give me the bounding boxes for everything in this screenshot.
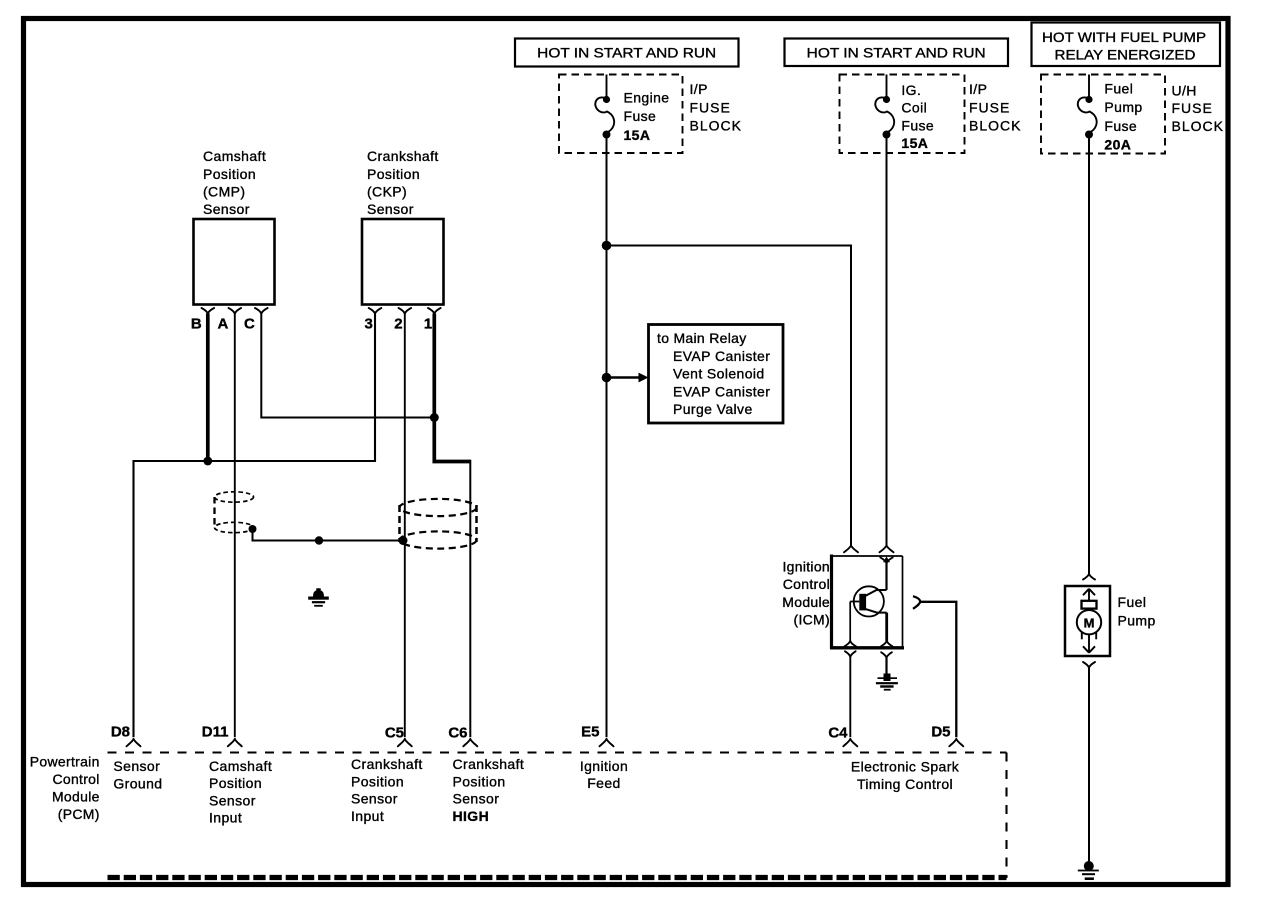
svg-text:HOT IN START AND RUN: HOT IN START AND RUN — [537, 45, 716, 61]
svg-text:D8: D8 — [111, 724, 130, 741]
svg-text:IG.: IG. — [901, 82, 921, 98]
svg-text:Module: Module — [52, 789, 100, 805]
svg-text:Ground: Ground — [113, 775, 162, 791]
svg-text:Electronic Spark: Electronic Spark — [851, 759, 960, 775]
svg-text:HOT IN START AND RUN: HOT IN START AND RUN — [807, 45, 986, 61]
svg-text:HOT WITH FUEL PUMP: HOT WITH FUEL PUMP — [1042, 29, 1206, 45]
svg-text:(CMP): (CMP) — [203, 184, 245, 200]
svg-text:Feed: Feed — [587, 775, 621, 791]
svg-text:EVAP Canister: EVAP Canister — [673, 348, 770, 364]
svg-text:Position: Position — [351, 773, 404, 789]
svg-text:Control: Control — [52, 771, 99, 787]
svg-text:Crankshaft: Crankshaft — [367, 148, 439, 164]
svg-text:Purge Valve: Purge Valve — [673, 401, 753, 417]
svg-text:Vent Solenoid: Vent Solenoid — [673, 366, 765, 382]
svg-text:Input: Input — [209, 810, 242, 826]
svg-text:FUSE: FUSE — [690, 99, 731, 115]
svg-text:(CKP): (CKP) — [367, 184, 407, 200]
svg-text:(PCM): (PCM) — [58, 806, 100, 822]
svg-text:(ICM): (ICM) — [794, 612, 831, 628]
svg-text:C: C — [244, 316, 255, 333]
svg-text:Fuel: Fuel — [1104, 81, 1133, 97]
svg-text:Coil: Coil — [901, 100, 927, 116]
svg-text:BLOCK: BLOCK — [1172, 118, 1224, 134]
svg-text:Crankshaft: Crankshaft — [351, 756, 423, 772]
svg-text:Position: Position — [203, 166, 256, 182]
svg-text:M: M — [1084, 615, 1095, 630]
svg-text:RELAY ENERGIZED: RELAY ENERGIZED — [1055, 47, 1196, 63]
svg-text:C4: C4 — [828, 725, 848, 742]
svg-text:C5: C5 — [385, 725, 404, 742]
svg-text:BLOCK: BLOCK — [969, 118, 1021, 134]
svg-text:Position: Position — [209, 775, 262, 791]
svg-text:Pump: Pump — [1104, 99, 1142, 115]
svg-text:Sensor: Sensor — [351, 791, 398, 807]
svg-text:D11: D11 — [202, 724, 229, 741]
svg-text:Crankshaft: Crankshaft — [453, 756, 525, 772]
svg-text:I/P: I/P — [969, 81, 987, 97]
svg-text:FUSE: FUSE — [969, 99, 1010, 115]
svg-text:1: 1 — [424, 316, 432, 333]
svg-text:Engine: Engine — [624, 90, 670, 106]
svg-text:Timing Control: Timing Control — [857, 776, 953, 792]
svg-text:Sensor: Sensor — [453, 791, 500, 807]
svg-text:Ignition: Ignition — [782, 559, 830, 575]
svg-text:HIGH: HIGH — [453, 808, 490, 824]
svg-text:Fuse: Fuse — [1104, 118, 1137, 134]
svg-text:Sensor: Sensor — [209, 792, 256, 808]
svg-text:to Main Relay: to Main Relay — [657, 330, 747, 346]
svg-text:Position: Position — [453, 773, 506, 789]
svg-text:BLOCK: BLOCK — [690, 118, 742, 134]
svg-text:E5: E5 — [581, 724, 599, 741]
svg-text:Camshaft: Camshaft — [209, 758, 272, 774]
svg-text:C6: C6 — [448, 725, 467, 742]
svg-text:Position: Position — [367, 166, 420, 182]
svg-text:Pump: Pump — [1118, 613, 1156, 629]
svg-text:Input: Input — [351, 808, 384, 824]
svg-text:FUSE: FUSE — [1172, 100, 1213, 116]
svg-text:Sensor: Sensor — [367, 201, 414, 217]
svg-text:20A: 20A — [1104, 136, 1131, 152]
svg-text:15A: 15A — [624, 127, 651, 143]
svg-text:Sensor: Sensor — [203, 201, 250, 217]
svg-text:15A: 15A — [901, 135, 928, 151]
svg-text:Module: Module — [782, 594, 830, 610]
svg-text:B: B — [191, 316, 202, 333]
svg-text:Fuel: Fuel — [1118, 594, 1147, 610]
svg-text:Fuse: Fuse — [624, 108, 657, 124]
svg-text:3: 3 — [365, 316, 373, 333]
svg-text:Ignition: Ignition — [580, 758, 628, 774]
svg-text:Control: Control — [783, 576, 830, 592]
svg-text:Fuse: Fuse — [901, 117, 934, 133]
svg-text:Camshaft: Camshaft — [203, 148, 266, 164]
svg-text:2: 2 — [394, 316, 402, 333]
svg-text:U/H: U/H — [1172, 83, 1197, 99]
svg-text:D5: D5 — [931, 724, 950, 741]
svg-text:A: A — [217, 316, 228, 333]
svg-text:Powertrain: Powertrain — [30, 754, 100, 770]
svg-text:I/P: I/P — [690, 81, 708, 97]
svg-text:Sensor: Sensor — [113, 758, 160, 774]
svg-text:EVAP Canister: EVAP Canister — [673, 383, 770, 399]
